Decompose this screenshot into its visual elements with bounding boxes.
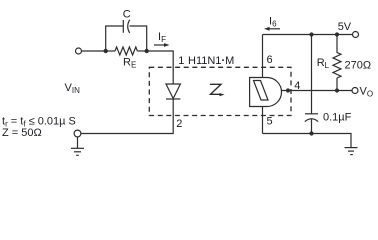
svg-text:270Ω: 270Ω (345, 59, 372, 71)
svg-text:I6: I6 (269, 16, 277, 29)
svg-text:0.1µF: 0.1µF (323, 111, 352, 123)
svg-text:5: 5 (267, 116, 273, 128)
svg-text:1: 1 (178, 55, 184, 67)
svg-text:VO: VO (360, 86, 374, 99)
svg-text:4: 4 (294, 80, 300, 92)
svg-text:RE: RE (123, 57, 136, 70)
svg-text:Z = 50Ω: Z = 50Ω (2, 127, 42, 139)
svg-text:RL: RL (317, 57, 330, 70)
svg-text:VIN: VIN (65, 82, 81, 95)
svg-text:5V: 5V (338, 21, 352, 33)
svg-text:H11N1·M: H11N1·M (188, 55, 234, 67)
svg-text:IF: IF (158, 31, 166, 44)
svg-text:C: C (123, 9, 131, 21)
svg-text:6: 6 (267, 54, 273, 66)
svg-text:2: 2 (176, 118, 182, 130)
